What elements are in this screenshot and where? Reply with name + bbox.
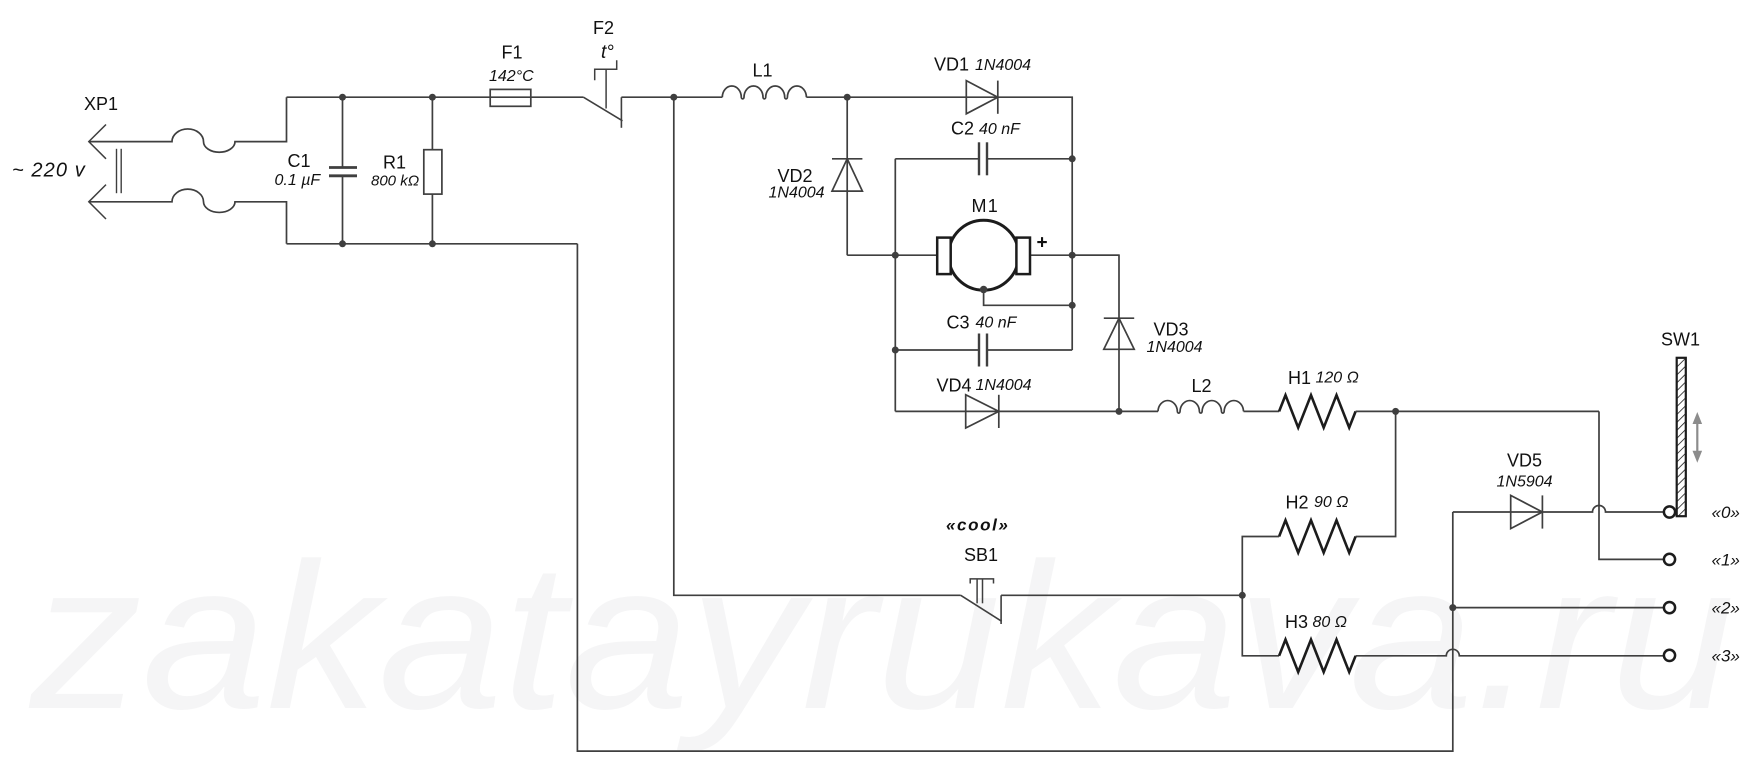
- wire top rail left: [287, 96, 584, 98]
- svg-text:40 nF: 40 nF: [976, 315, 1018, 332]
- label VD3 1N4004: [1147, 339, 1203, 356]
- wire to terminal 2: [1453, 607, 1664, 609]
- terminal «0»: [1664, 506, 1675, 517]
- thermal switch F2 blade: [583, 97, 622, 121]
- svg-text:R1: R1: [383, 153, 406, 173]
- svg-text:SW1: SW1: [1661, 330, 1700, 350]
- label VD3: [1154, 320, 1189, 340]
- wire VD5 row with hop: [1453, 506, 1664, 512]
- svg-text:1N4004: 1N4004: [1147, 339, 1203, 356]
- watermark zakatayrukava.ru: [28, 521, 1735, 753]
- svg-text:L1: L1: [753, 61, 773, 81]
- label 800 kΩ: [371, 173, 419, 190]
- label «3»: [1712, 646, 1740, 665]
- node R1 top: [429, 94, 436, 101]
- label H2 90 Ω: [1314, 494, 1348, 511]
- switch SW1 slider: [1677, 358, 1686, 516]
- label C2 40 nF: [979, 121, 1021, 138]
- label F2: [593, 18, 614, 38]
- pushbutton SB1 blade: [961, 595, 1002, 621]
- fuse F1: [490, 89, 531, 106]
- diode VD3: [1104, 318, 1134, 349]
- wire H3 left branch: [1242, 595, 1279, 656]
- heater H1: [1279, 395, 1356, 427]
- svg-text:+: +: [1037, 233, 1048, 254]
- label C2: [951, 119, 974, 139]
- svg-text:VD2: VD2: [778, 166, 813, 186]
- wire down to SB1: [674, 97, 961, 595]
- label F1: [502, 43, 523, 63]
- node L1 right junction: [844, 94, 851, 101]
- diode VD1: [966, 81, 998, 114]
- svg-text:«2»: «2»: [1712, 599, 1740, 618]
- label «cool»: [946, 516, 1009, 535]
- svg-text:H1: H1: [1288, 368, 1311, 388]
- heater H2: [1279, 520, 1356, 552]
- label VD5: [1507, 451, 1542, 471]
- wire lower cord: [89, 189, 287, 244]
- resistor R1: [424, 97, 442, 244]
- pushbutton SB1 actuator: [970, 579, 993, 603]
- svg-text:800 kΩ: 800 kΩ: [371, 173, 419, 190]
- switch SW1 travel arrow: [1693, 412, 1703, 463]
- node C3 left: [892, 347, 899, 354]
- svg-text:M1: M1: [972, 196, 999, 216]
- node motor bottom terminal: [980, 286, 988, 294]
- svg-text:SB1: SB1: [964, 545, 998, 565]
- label H2: [1286, 493, 1309, 513]
- motor M1: [937, 220, 1030, 290]
- label H1: [1288, 368, 1311, 388]
- svg-text:C3: C3: [947, 313, 970, 333]
- wire H1 right: [1356, 410, 1599, 412]
- svg-text:1N4004: 1N4004: [975, 57, 1031, 74]
- wire H2 left branch: [1242, 537, 1279, 596]
- label C3 40 nF: [976, 315, 1018, 332]
- node SB1 junction: [1239, 592, 1246, 599]
- svg-text:142°C: 142°C: [489, 68, 534, 85]
- node C2 right: [1069, 155, 1076, 162]
- capacitor C2: [895, 142, 1072, 255]
- wire bottom return: [577, 244, 1452, 751]
- terminal «2»: [1664, 602, 1675, 613]
- thermal switch F2 contact: [620, 97, 622, 128]
- wire L1 to VD1: [806, 96, 966, 98]
- plug XP1 socket lines: [117, 149, 122, 193]
- terminal «1»: [1664, 554, 1675, 565]
- svg-text:«cool»: «cool»: [946, 516, 1009, 535]
- label VD2 1N4004: [769, 185, 825, 202]
- wire H3 to terminal 3 with hop: [1356, 649, 1664, 655]
- wire SB1 to junction: [1001, 594, 1242, 596]
- svg-text:«1»: «1»: [1712, 550, 1740, 569]
- label C1: [288, 151, 311, 171]
- inductor L2: [1158, 401, 1244, 414]
- thermal switch F2 actuator bracket: [595, 60, 617, 108]
- label H3 80 Ω: [1313, 614, 1347, 631]
- svg-text:F1: F1: [502, 43, 523, 63]
- svg-text:VD1: VD1: [934, 55, 969, 75]
- wire VD2 branch: [846, 97, 848, 255]
- svg-text:0.1 µF: 0.1 µF: [275, 172, 322, 189]
- wire motor left: [847, 254, 937, 256]
- label 0.1 µF: [275, 172, 322, 189]
- svg-text:«0»: «0»: [1712, 503, 1740, 522]
- pushbutton SB1 contact: [1000, 595, 1002, 624]
- svg-text:VD5: VD5: [1507, 451, 1542, 471]
- svg-text:zakatayrukava.ru: zakatayrukava.ru: [28, 521, 1735, 753]
- label L2: [1192, 376, 1212, 396]
- label C3: [947, 313, 970, 333]
- wire C2C3 left vertical: [894, 255, 896, 411]
- node C1 top: [339, 94, 346, 101]
- svg-text:80 Ω: 80 Ω: [1313, 614, 1347, 631]
- node motor right rail: [1069, 252, 1076, 259]
- svg-text:F2: F2: [593, 18, 614, 38]
- label VD4 1N4004: [976, 377, 1032, 394]
- node C1 bottom: [339, 240, 346, 247]
- svg-text:«3»: «3»: [1712, 646, 1740, 665]
- capacitor C3: [895, 334, 1072, 367]
- diode VD2: [832, 159, 862, 191]
- label XP1: [84, 94, 118, 114]
- wire VD3 branch: [1072, 255, 1119, 411]
- wire VD1 to C3 right: [966, 97, 1072, 350]
- svg-text:C2: C2: [951, 119, 974, 139]
- node motor bottom rail: [1069, 302, 1076, 309]
- svg-text:VD3: VD3: [1154, 320, 1189, 340]
- node H1 junction: [1392, 408, 1399, 415]
- capacitor C1: [329, 97, 357, 244]
- svg-text:1N4004: 1N4004: [976, 377, 1032, 394]
- svg-text:H3: H3: [1285, 612, 1308, 632]
- label M1: [972, 196, 999, 216]
- terminal «3»: [1664, 650, 1675, 661]
- label «0»: [1712, 503, 1740, 522]
- label M1 plus: [1037, 233, 1048, 254]
- svg-text:XP1: XP1: [84, 94, 118, 114]
- node terminal2 junction: [1449, 604, 1456, 611]
- svg-text:90 Ω: 90 Ω: [1314, 494, 1348, 511]
- label H1 120 Ω: [1316, 370, 1359, 387]
- svg-text:120 Ω: 120 Ω: [1316, 370, 1359, 387]
- label 142°C: [489, 68, 534, 85]
- svg-text:H2: H2: [1286, 493, 1309, 513]
- diode VD5: [1511, 495, 1543, 528]
- wire motor bottom: [984, 290, 1073, 306]
- label L1: [753, 61, 773, 81]
- label VD5 1N5904: [1497, 474, 1553, 491]
- svg-text:1N4004: 1N4004: [769, 185, 825, 202]
- wire H2 right branch: [1356, 411, 1396, 536]
- label H3: [1285, 612, 1308, 632]
- wire motor right: [1030, 254, 1119, 256]
- node VD3 bottom junction: [1116, 408, 1123, 415]
- label SB1: [964, 545, 998, 565]
- svg-text:~ 220 v: ~ 220 v: [12, 160, 86, 182]
- plug XP1 upper prong: [89, 125, 106, 159]
- label «2»: [1712, 599, 1740, 618]
- wire bottom rail: [287, 243, 578, 245]
- label ~ 220 v: [12, 160, 86, 182]
- heater H3: [1279, 640, 1356, 672]
- diode VD4: [966, 395, 999, 428]
- wire upper cord: [89, 97, 287, 152]
- node motor left junction: [892, 252, 899, 259]
- wire VD4 row: [895, 410, 1158, 412]
- label VD1: [934, 55, 969, 75]
- label VD4: [937, 376, 972, 396]
- plug XP1 lower prong: [89, 185, 106, 219]
- svg-text:L2: L2: [1192, 376, 1212, 396]
- label t°: [601, 42, 614, 63]
- svg-text:C1: C1: [288, 151, 311, 171]
- label R1: [383, 153, 406, 173]
- label «1»: [1712, 550, 1740, 569]
- node R1 bottom: [429, 240, 436, 247]
- label VD2: [778, 166, 813, 186]
- svg-text:40 nF: 40 nF: [979, 121, 1021, 138]
- wire L2 to H1: [1244, 410, 1280, 412]
- svg-text:1N5904: 1N5904: [1497, 474, 1553, 491]
- svg-text:t°: t°: [601, 42, 614, 63]
- inductor L1: [722, 86, 806, 99]
- label VD1 1N4004: [975, 57, 1031, 74]
- wire to terminal 1: [1599, 411, 1664, 559]
- svg-text:VD4: VD4: [937, 376, 972, 396]
- node junction to SB1: [670, 94, 677, 101]
- wire F2 to L1: [621, 96, 722, 98]
- label SW1: [1661, 330, 1700, 350]
